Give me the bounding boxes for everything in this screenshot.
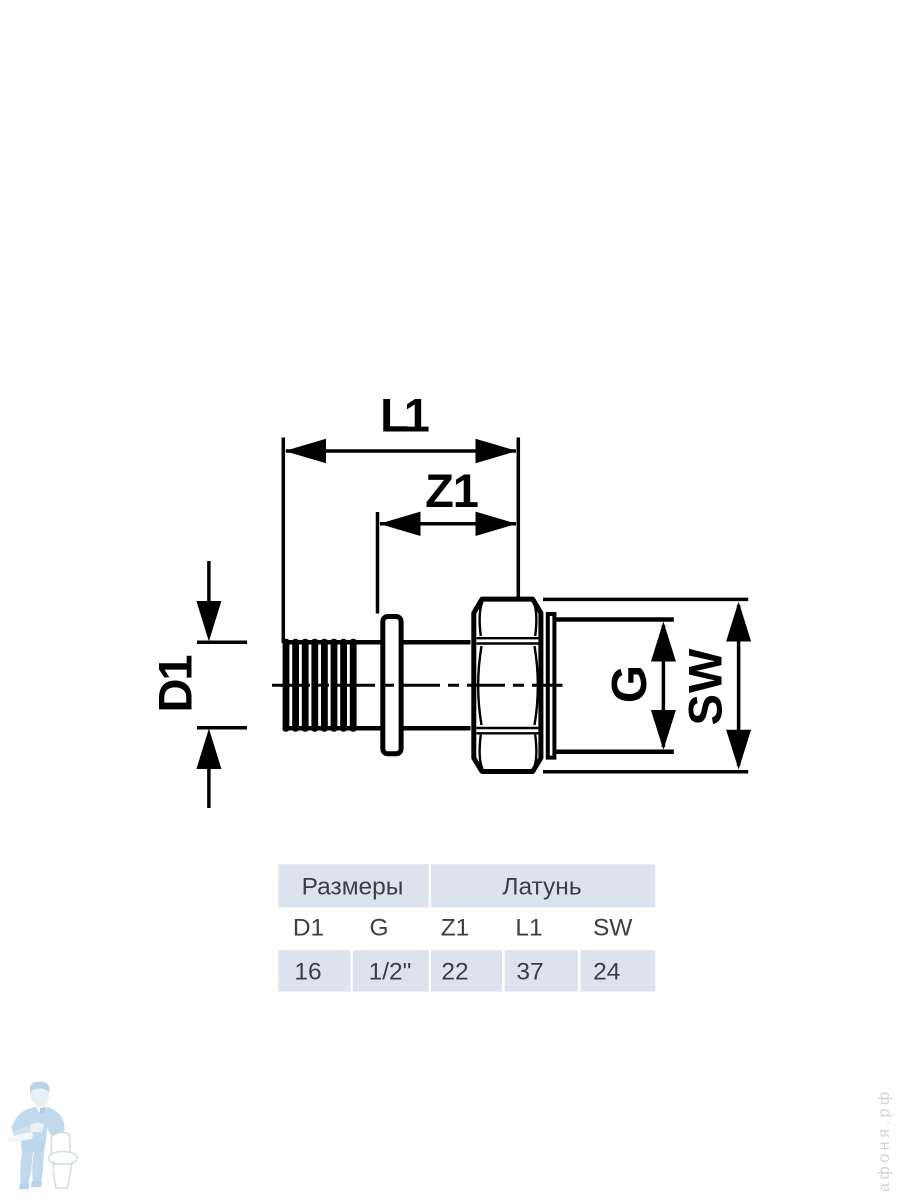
table header background [278,864,655,907]
hex nut [474,599,541,771]
dimension arrows D1 [196,561,221,808]
dimension arrow G [651,622,676,750]
dimension label L1 [380,389,429,442]
svg-text:1/2": 1/2" [369,959,412,986]
dimension label SW (rotated) [679,648,732,726]
dimension label Z1 [425,464,478,517]
press sleeve ribs [283,639,357,732]
extension line L1 left [282,438,286,644]
svg-text:16: 16 [294,959,321,986]
sleeve tube outline [283,642,471,728]
table texts [293,874,633,986]
svg-text:L1: L1 [380,389,429,442]
svg-text:SW: SW [679,648,732,726]
svg-text:Размеры: Размеры [302,874,404,901]
svg-text:афоня.рф: афоня.рф [876,1088,893,1192]
center axis line [272,684,563,687]
dimension line Z1 [379,512,517,536]
extension line Z1 left [376,512,380,614]
extension lines SW [543,599,748,771]
svg-text:Z1: Z1 [425,464,478,517]
dimension label G (rotated) [603,665,657,703]
thread ring [548,614,555,758]
table value row background [278,950,655,991]
logo plumber with toilet [8,1082,78,1190]
svg-text:G: G [369,915,388,942]
thread body [556,620,673,752]
svg-text:22: 22 [441,959,468,986]
dimension label D1 (rotated) [149,656,202,713]
svg-text:G: G [603,665,657,703]
extension lines D1 [197,642,247,727]
svg-text:L1: L1 [515,915,542,942]
svg-text:D1: D1 [149,656,202,713]
svg-text:SW: SW [593,915,633,942]
svg-text:D1: D1 [293,915,324,942]
dimension arrow SW [726,602,751,770]
svg-text:Латунь: Латунь [502,874,581,901]
collar flange [383,617,401,754]
watermark [876,1088,893,1192]
dimension line L1 [285,439,518,463]
svg-text:Z1: Z1 [441,915,470,942]
svg-text:24: 24 [593,959,620,986]
extension line L1/Z1 right [517,438,521,626]
svg-text:37: 37 [516,959,543,986]
